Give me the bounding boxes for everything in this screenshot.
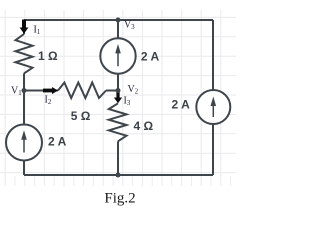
wire: R 4ohm bottom to bottom junction [117, 141, 119, 175]
current source middle arrow (up) [115, 44, 121, 66]
svg-text:5 Ω: 5 Ω [71, 109, 91, 123]
current source right 2A (circle) [196, 90, 230, 124]
svg-text:Fig.2: Fig.2 [104, 190, 135, 206]
resistor R 5ohm (horizontal zigzag) [58, 83, 106, 99]
wire bottom: from left branch to right branch [24, 174, 213, 176]
wire: R1 bottom to node V1 [23, 73, 25, 91]
wire left: top corner stub under I1 arrow [23, 20, 25, 34]
node V1 junction dot [22, 88, 27, 93]
current source middle 2A (circle) [100, 38, 135, 73]
resistor R 4ohm (middle branch zigzag) [109, 103, 127, 141]
svg-text:1 Ω: 1 Ω [38, 49, 58, 63]
svg-text:V1: V1 [11, 86, 22, 98]
svg-text:V2: V2 [128, 84, 139, 96]
wire: 5ohm to node V2 [106, 90, 118, 92]
wire right: vertical, top segment above source [212, 20, 214, 91]
wire: node V1 to left current source top [23, 91, 25, 125]
wire: node V3 down to middle source top [117, 20, 119, 39]
fine grid stubs below bottom wire [15, 176, 231, 186]
svg-text:2 A: 2 A [48, 135, 67, 149]
wire top: from left branch to right branch [24, 19, 213, 21]
resistor R 1ohm (left branch zigzag) [16, 34, 33, 73]
wire: middle source bottom to node V2 [117, 74, 119, 92]
wire middle horizontal: V1 to 5ohm resistor [24, 90, 58, 92]
svg-text:V3: V3 [124, 20, 135, 32]
svg-text:2 A: 2 A [172, 98, 191, 112]
svg-text:4 Ω: 4 Ω [134, 119, 154, 133]
current source right arrow (up) [211, 97, 217, 118]
node V2 junction dot [116, 88, 121, 93]
wire right: vertical, bottom segment below source [212, 124, 214, 176]
current source left arrow (up) [21, 130, 27, 152]
current arrow I1 (down) top left [20, 20, 29, 34]
bottom junction dot [116, 173, 121, 178]
svg-text:2 A: 2 A [141, 50, 160, 64]
node V3 junction dot [116, 18, 121, 23]
background grid [0, 10, 236, 186]
svg-text:I2: I2 [45, 95, 52, 107]
current arrow I3 (down) at node V2 [114, 91, 122, 103]
svg-text:I1: I1 [34, 25, 41, 37]
current arrow I2 (right) on middle wire [43, 87, 58, 94]
wire: left source bottom to bottom-left corner [23, 160, 25, 175]
current source left 2A (circle) [6, 125, 42, 161]
svg-text:I3: I3 [124, 95, 131, 107]
